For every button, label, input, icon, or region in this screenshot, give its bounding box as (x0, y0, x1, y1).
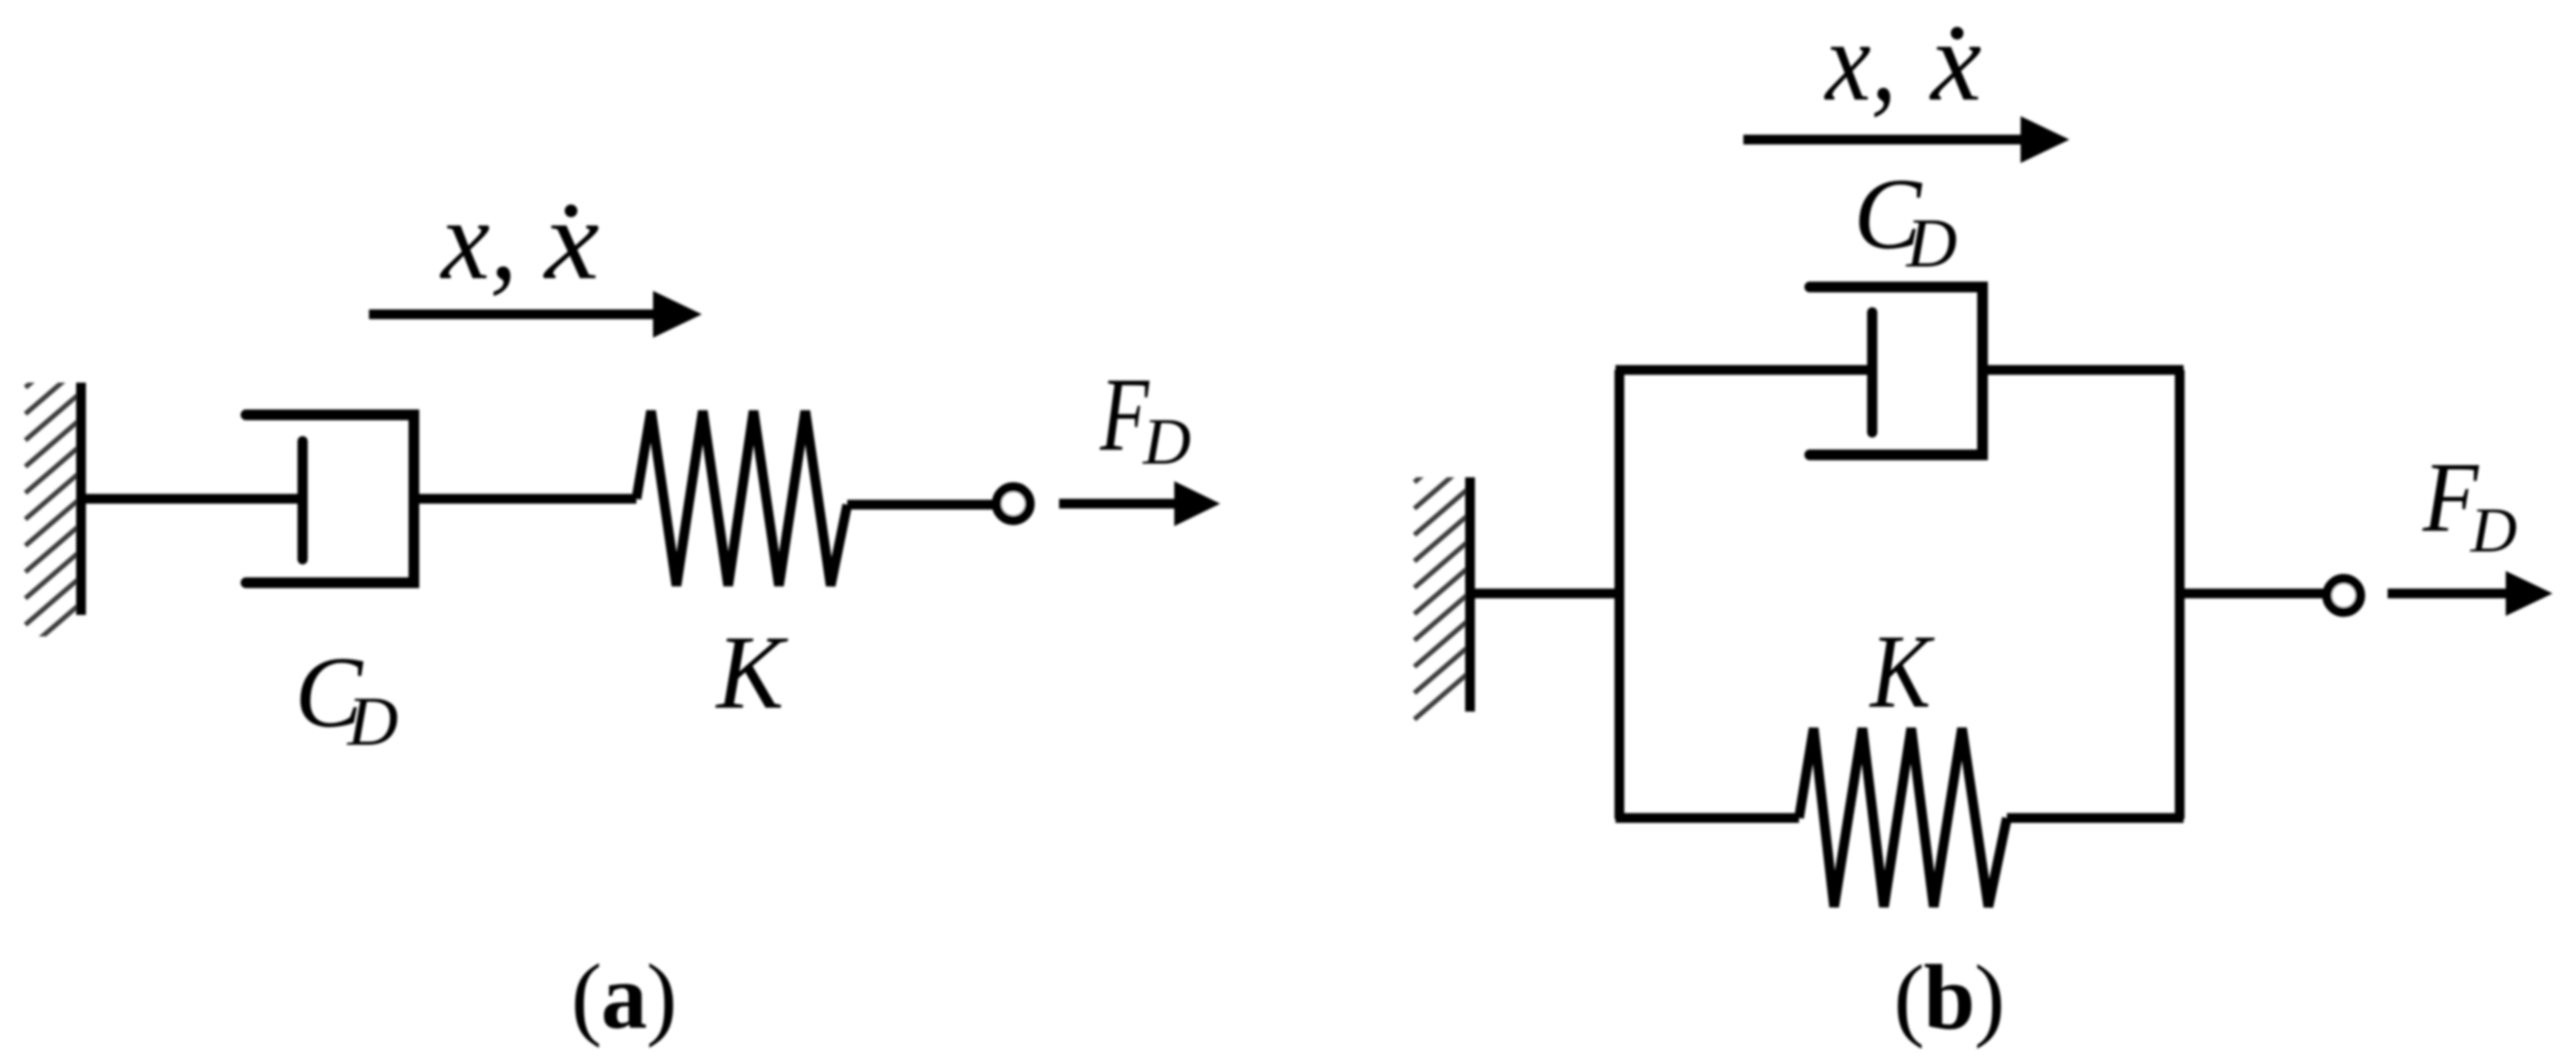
displacement arrow (b) (1743, 116, 2069, 163)
damper cylinder C_D (a) (246, 415, 414, 583)
spring K (a) (636, 411, 847, 586)
svg-text:K: K (1868, 614, 1935, 730)
svg-text:D: D (1142, 404, 1191, 478)
pin node (a) (997, 487, 1030, 520)
force arrow F_D (a) (1059, 481, 1220, 526)
spring K (b) (1799, 728, 2007, 907)
svg-text:D: D (347, 682, 398, 760)
svg-text:D: D (1905, 204, 1957, 282)
svg-text:x,: x, (1823, 0, 1897, 125)
wire frame to pin (b) (2180, 589, 2326, 598)
damper piston (b) (1867, 312, 1878, 432)
pin node (b) (2327, 579, 2360, 612)
damper piston (a) (298, 441, 308, 559)
svg-text:x: x (543, 176, 599, 304)
wire top branch right (b) (1983, 365, 2184, 375)
svg-text:(b): (b) (1894, 946, 2004, 1049)
displacement arrow (a) (369, 291, 702, 338)
svg-text:x,: x, (439, 176, 517, 304)
wire top branch left (b) (1615, 365, 1872, 375)
wire damper to spring (a) (414, 494, 636, 504)
wire spring to pin (a) (847, 500, 996, 510)
damper cylinder C_D (b) (1810, 287, 1983, 455)
wall (b) (1465, 477, 1475, 712)
frame right bar (b) (2175, 370, 2185, 819)
wire bottom branch right (b) (2007, 813, 2184, 823)
frame left bar (b) (1615, 370, 1624, 819)
force arrow F_D (b) (2388, 571, 2553, 616)
svg-text:D: D (2470, 495, 2517, 566)
wire wall to damper piston (a) (81, 494, 303, 504)
wall hatching (b) (1414, 434, 1470, 719)
wall (a) (76, 383, 86, 615)
wire bottom branch left (b) (1615, 813, 1799, 823)
svg-text:x: x (1929, 0, 1982, 125)
svg-text:(a): (a) (571, 945, 676, 1048)
wire wall to frame (b) (1470, 589, 1623, 598)
svg-text:K: K (715, 615, 789, 731)
wall hatching (a) (25, 340, 81, 651)
